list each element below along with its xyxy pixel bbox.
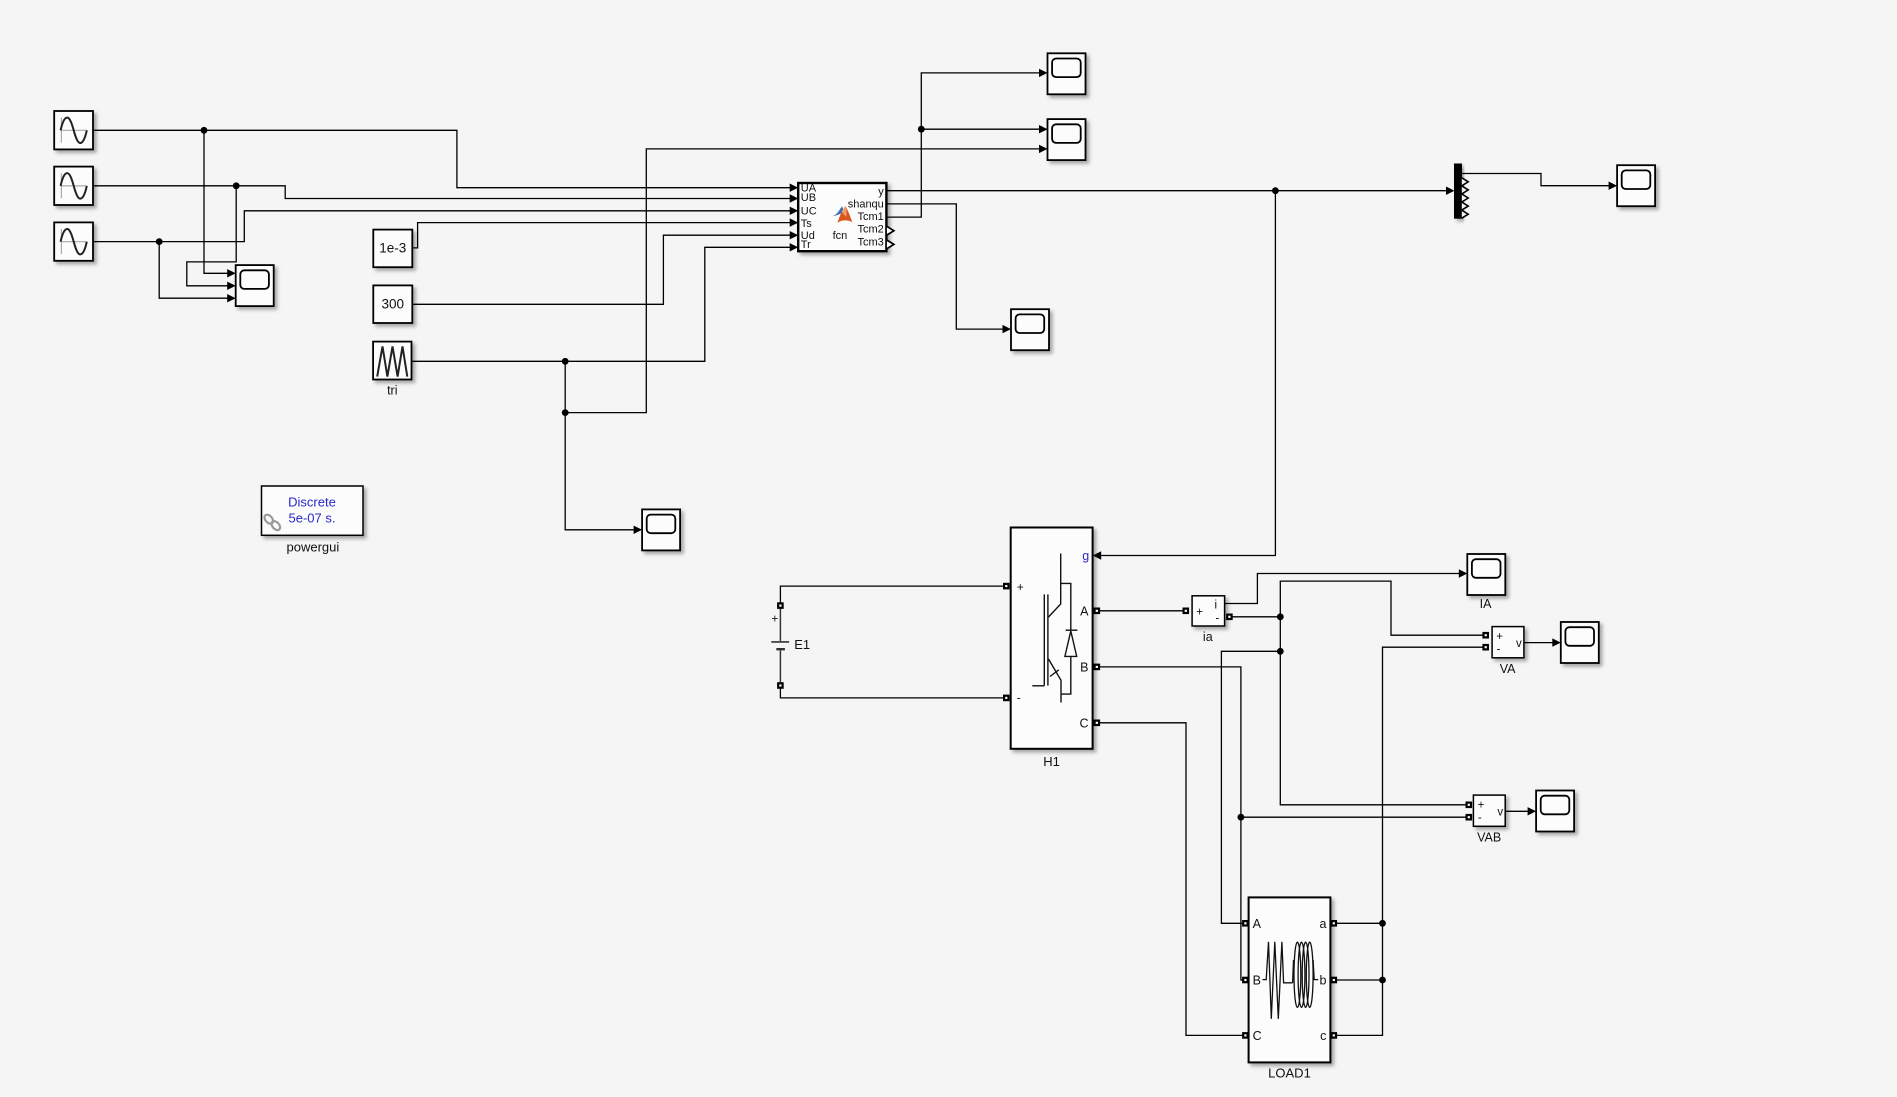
svg-text:Tcm3: Tcm3 [858,236,884,248]
wire H1 C to LOAD1 C [1097,723,1246,1036]
current measurement ia [1192,596,1225,644]
svg-text:+: + [1017,580,1024,594]
svg-text:E1: E1 [794,637,810,652]
output chevron Tcm3 (unconnected) [887,240,894,249]
svg-text:A: A [1253,917,1262,931]
port square ia - [1226,614,1233,621]
svg-text:+: + [1478,799,1485,811]
MATLAB Function block fcn [798,182,886,251]
node junction1 on tri wire [562,358,569,365]
wire H1 A to ia + [1097,610,1186,612]
svg-text:Ts: Ts [801,218,813,230]
node junction load a [1379,920,1386,927]
svg-text:c: c [1320,1029,1326,1043]
svg-text:-: - [1216,612,1220,624]
svg-text:1e-3: 1e-3 [379,241,406,256]
port square H1 - [1003,695,1010,702]
sine wave source 2 [54,167,93,205]
wire VA - to load-a net [1334,647,1486,1035]
wire demux output 1 to Scope6 [1462,174,1609,186]
svg-text:C: C [1253,1029,1262,1043]
port square VA - [1482,644,1489,651]
node junction load b [1379,977,1386,984]
wire sine3 to fcn UC [93,211,790,242]
port square H1 A [1094,608,1101,615]
wire junction2 down to Scope5 [565,413,634,530]
svg-text:UC: UC [801,206,817,218]
wire LOAD1 b to net [1334,979,1383,981]
port square H1 C [1094,720,1101,727]
svg-text:fcn: fcn [833,230,848,242]
wire junction to Scope1 input 2 [187,186,236,286]
svg-text:tri: tri [387,384,397,398]
scope after VA [1561,622,1599,663]
wire fcn Tcm1 up to Scope2 [886,73,1039,217]
svg-text:C: C [1079,716,1088,730]
svg-text:+: + [1496,631,1503,643]
port square E1 + [777,602,784,609]
svg-text:v: v [1497,807,1503,819]
svg-text:a: a [1319,917,1326,931]
three-phase load LOAD1 [1249,897,1331,1080]
MATLAB logo inside fcn [833,206,844,216]
wire 1e-3 to fcn Ts [412,223,790,248]
port square LOAD1 b [1331,977,1338,984]
svg-text:-: - [1497,643,1501,655]
wire 300 to fcn Ud [412,235,790,304]
output chevron Tcm2 (unconnected) [887,226,894,235]
port square ia + [1183,608,1190,615]
node junction on y wire [1272,187,1279,194]
wire junction2 to Scope3 input 2 [565,149,1039,413]
svg-text:+: + [771,613,778,625]
sine wave source 3 [54,222,93,260]
port square H1 B [1094,664,1101,671]
node junction on Tcm1 wire [918,126,925,133]
port square LOAD1 a [1331,920,1338,927]
wire junction2 to LOAD1 A [1221,651,1280,923]
node junction B net to VAB - [1238,814,1245,821]
svg-text:LOAD1: LOAD1 [1268,1066,1311,1081]
svg-text:B: B [1080,660,1088,674]
svg-text:i: i [1215,599,1218,611]
svg-text:powergui: powergui [287,539,340,554]
svg-text:VAB: VAB [1477,830,1501,844]
wire B junction to VAB - [1241,816,1469,818]
svg-text:ia: ia [1203,630,1213,644]
svg-text:Discrete: Discrete [288,495,336,510]
voltage measurement VAB [1473,795,1505,844]
scope Scope2 (top right of fcn) [1048,53,1086,94]
wire node down to junction2 [1279,617,1281,652]
svg-text:A: A [1080,604,1089,618]
scope Scope6 (after demux) [1617,165,1655,206]
svg-text:IA: IA [1480,597,1492,611]
RLC load icon inside LOAD1 [1263,942,1319,1019]
wire ia - to node [1229,616,1280,618]
demux block [1455,164,1462,218]
scope Scope3 (two inputs) [1048,119,1086,160]
svg-text:y: y [878,186,884,198]
node junction2 on tri branch [562,409,569,416]
port square E1 - [777,682,784,689]
wire VAB v to scope [1505,810,1528,812]
wire E1 - to H1 - [780,686,1006,698]
node junction phase-A net [1277,648,1284,655]
wire sine1 to fcn UA [93,130,790,187]
svg-text:5e-07 s.: 5e-07 s. [289,511,336,526]
port square LOAD1 A [1242,920,1249,927]
wire ia i to scope IA [1225,574,1459,604]
svg-text:VA: VA [1500,662,1516,676]
node junction on sine3 wire [156,238,163,245]
svg-text:-: - [1017,691,1021,705]
wire y junction down to H1 g input [1101,191,1275,556]
IGBT and diode icon inside H1 [1032,554,1077,703]
wire junction2 down to VAB + [1280,651,1469,805]
battery E1 (DC voltage source) [771,609,810,683]
wire H1 B to LOAD1 B [1097,667,1246,980]
svg-text:UB: UB [801,192,816,204]
port square LOAD1 B [1242,977,1249,984]
svg-text:v: v [1516,638,1522,650]
svg-text:300: 300 [382,297,405,312]
node junction on sine1 wire [201,127,208,134]
wire sine2 to fcn UB [93,186,790,199]
demux unconnected chevrons [1462,178,1468,218]
svg-text:Tcm1: Tcm1 [858,211,884,223]
svg-text:H1: H1 [1043,754,1060,769]
svg-text:Tr: Tr [801,239,811,251]
universal bridge H1 [1011,528,1093,770]
wire junction to Scope1 input 3 [159,242,227,299]
scope IA [1467,554,1505,611]
port square VA + [1482,632,1489,639]
scope after VAB [1536,791,1574,832]
svg-text:g: g [1082,549,1089,563]
wire LOAD1 a to net [1334,922,1383,924]
node junction ia- net [1277,613,1284,620]
scope Scope1 (3 inputs) [236,265,274,306]
wire E1 + to H1 + [780,586,1006,606]
port square LOAD1 c [1331,1032,1338,1039]
svg-text:Tcm2: Tcm2 [858,224,884,236]
triangle wave source tri [373,342,411,398]
wire Tcm1 junction to Scope3 input 1 [921,128,1039,130]
svg-text:shanqu: shanqu [848,199,884,211]
scope Scope4 (shanqu) [1011,309,1049,350]
port square LOAD1 C [1242,1032,1249,1039]
wire fcn y to demux [886,190,1446,192]
port square H1 + [1003,583,1010,590]
constant 300 [373,285,412,323]
node junction on sine2 wire [233,182,240,189]
powergui block [262,486,364,554]
constant 1e-3 [373,230,412,268]
svg-text:-: - [1478,812,1482,824]
port square VAB - [1466,814,1473,821]
wire tri to fcn Tr [412,247,791,361]
wire VA v to scope [1524,642,1553,644]
voltage measurement VA [1492,627,1524,676]
svg-text:B: B [1253,974,1261,988]
sine wave source 1 [54,111,93,149]
wire fcn shanqu to Scope4 [886,204,1002,329]
svg-text:b: b [1319,974,1326,988]
wire node up-over to VA + [1280,581,1485,635]
wire junction to Scope1 input 1 [204,130,228,273]
wire tri junction1 down to junction2 [564,361,566,412]
svg-text:+: + [1196,607,1203,619]
scope Scope5 (tri signal) [642,509,680,550]
port square VAB + [1466,802,1473,809]
